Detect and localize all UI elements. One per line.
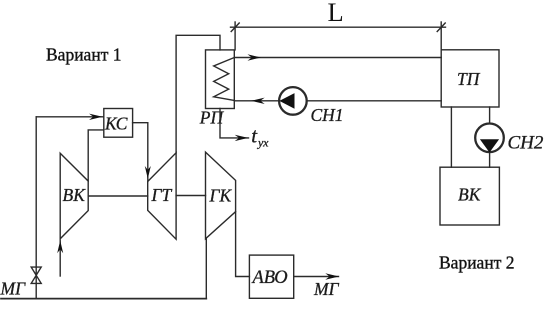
box АВО <box>249 255 293 298</box>
arrow right on top water line <box>248 54 262 60</box>
wire: hot water line РП to ТП (top) <box>234 57 441 59</box>
shaft ВК-ГТ <box>88 195 148 197</box>
svg-text:ВК: ВК <box>63 185 87 205</box>
svg-text:МГ: МГ <box>313 279 340 299</box>
box КС <box>104 109 133 138</box>
compressor ГК (trapezoid) <box>206 152 236 239</box>
pump СН1 <box>279 87 307 115</box>
heat exchanger РП box <box>206 50 235 109</box>
wire: АВО outlet with arrow <box>294 276 339 278</box>
svg-text:ТП: ТП <box>457 69 481 89</box>
wire: bottom МГ gas line <box>1 298 206 300</box>
svg-text:ГК: ГК <box>209 186 233 206</box>
svg-text:ГТ: ГТ <box>151 185 173 205</box>
svg-text:Вариант 2: Вариант 2 <box>439 252 514 272</box>
arrow left on return line <box>251 98 265 104</box>
arrow into КС (fuel) <box>89 114 103 120</box>
wire: return water line ТП to РП through СН1 <box>234 100 279 102</box>
arrow down into ГТ <box>145 166 151 179</box>
valve on fuel line <box>31 267 41 283</box>
pump СН2 <box>475 124 504 153</box>
wire: fuel gas horizontal into КС <box>36 116 104 118</box>
wire: fuel gas riser from МГ line through valve up to КС level <box>35 117 37 299</box>
svg-text:СН1: СН1 <box>311 105 344 125</box>
РП coil zigzag <box>214 58 235 101</box>
wire: riser from МГ line up to ГК inlet corner <box>205 239 207 299</box>
wire: air from ВК up to КС <box>88 130 104 181</box>
svg-text:ВК: ВК <box>458 185 482 205</box>
dimension L line <box>231 22 446 50</box>
svg-text:КС: КС <box>104 114 128 134</box>
wire: КС outlet to ГТ inlet <box>133 123 148 182</box>
shaft ГТ-ГК <box>176 195 205 197</box>
wire: ТП to СН2 vertical <box>489 107 491 124</box>
turbine ГТ (trapezoid) <box>148 153 176 239</box>
compressor ВК (trapezoid) <box>60 153 88 239</box>
svg-text:МГ: МГ <box>0 279 26 299</box>
box ТП <box>441 50 499 107</box>
wire: ТП to ВК left vertical <box>450 107 452 167</box>
svg-text:ух: ух <box>257 136 269 150</box>
wire: ГТ exhaust up and over to РП <box>176 35 220 153</box>
svg-text:L: L <box>328 0 344 27</box>
svg-text:СН2: СН2 <box>508 133 544 154</box>
svg-text:Вариант 1: Вариант 1 <box>46 45 121 65</box>
wire: flue gas out of РП bottom to t_ух <box>220 109 249 138</box>
wire: ГК outlet down to АВО <box>236 212 250 277</box>
box ВК (right, consumer) <box>440 167 499 225</box>
air intake line with up arrow <box>59 240 61 276</box>
svg-text:АВО: АВО <box>251 268 288 288</box>
